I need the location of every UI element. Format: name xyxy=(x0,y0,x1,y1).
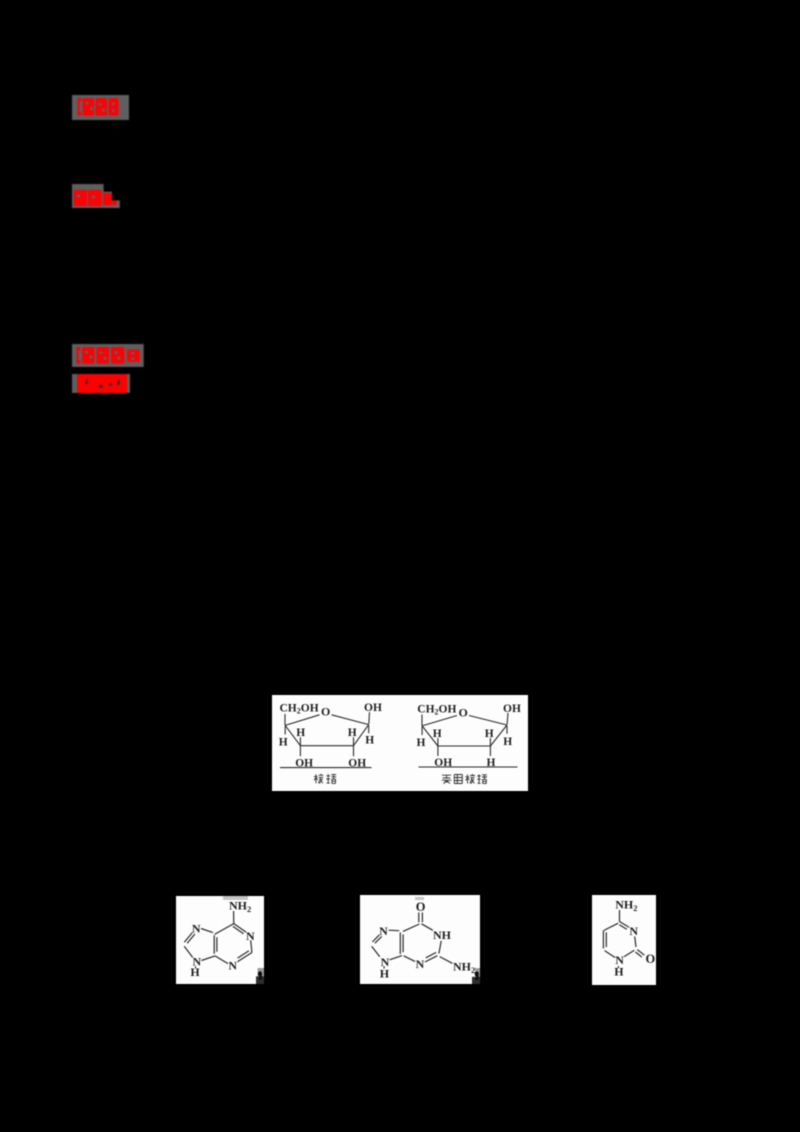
svg-text:H: H xyxy=(348,727,357,739)
svg-text:N: N xyxy=(192,921,201,935)
svg-text:O: O xyxy=(416,900,426,914)
svg-text:O: O xyxy=(646,952,656,966)
svg-text:H: H xyxy=(614,964,624,978)
svg-text:H: H xyxy=(380,966,390,980)
svg-text:O: O xyxy=(459,706,468,720)
svg-text:N: N xyxy=(379,924,388,938)
svg-text:N: N xyxy=(629,924,638,938)
svg-text:N: N xyxy=(416,957,425,971)
svg-text:H: H xyxy=(503,736,512,748)
svg-text:OH: OH xyxy=(503,703,521,715)
svg-text:OH: OH xyxy=(364,702,382,714)
svg-text:N: N xyxy=(228,959,237,973)
svg-text:H: H xyxy=(279,737,288,749)
svg-text:H: H xyxy=(433,728,442,740)
svg-text:O: O xyxy=(321,705,330,719)
svg-text:H: H xyxy=(365,735,374,747)
svg-text:H: H xyxy=(485,728,494,740)
svg-text:H: H xyxy=(417,737,426,749)
svg-text:NH: NH xyxy=(433,928,452,942)
